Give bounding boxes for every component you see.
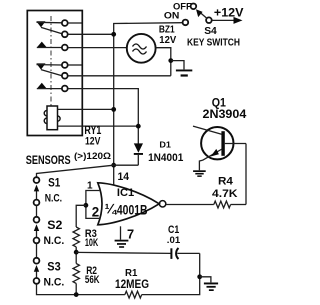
wire C1 right: [177, 252, 199, 254]
ground G3 emitter: [193, 170, 206, 177]
switch S4 ON contact: [183, 20, 189, 26]
svg-text:D1: D1: [159, 139, 171, 149]
wire NO2 to contact circle: [37, 88, 62, 90]
sensor S1: [34, 177, 40, 205]
diode D1: [134, 126, 143, 165]
svg-text:1N4001: 1N4001: [148, 152, 183, 164]
relay contact K1a NC triangle: [36, 21, 45, 27]
svg-text:56K: 56K: [85, 274, 100, 286]
node rail-coil junction: [111, 107, 116, 112]
svg-text:.01: .01: [167, 235, 180, 245]
wire contact P1 stub: [68, 22, 82, 24]
wire contact P3 to buzzer: [68, 47, 127, 49]
svg-text:+12V: +12V: [214, 6, 244, 19]
wire NC2 to contact circle: [37, 64, 62, 66]
svg-text:2: 2: [92, 204, 99, 219]
relay box RY1 outline: [27, 11, 82, 136]
node R2 bottom junction: [74, 292, 79, 297]
svg-text:2N3904: 2N3904: [203, 108, 247, 121]
node rail-D1-sensors junction: [111, 163, 116, 168]
relay contact circle P5: [62, 73, 68, 79]
svg-text:12MEG: 12MEG: [115, 278, 149, 291]
wire coil top to rail: [58, 108, 114, 110]
lever wire K1b: [41, 70, 62, 76]
ground G5 pin7: [115, 240, 129, 248]
resistor R3: [73, 227, 79, 247]
pin 7 wire: [120, 226, 122, 239]
wire contact P2 to +12V rail: [68, 33, 114, 35]
svg-text:N.C.: N.C.: [44, 235, 65, 247]
wire buzzer right lead: [156, 48, 171, 76]
svg-text:4001B: 4001B: [117, 203, 148, 218]
sensor S3: [34, 258, 40, 284]
svg-text:¼: ¼: [105, 201, 118, 217]
wire S1 to S2: [36, 205, 38, 216]
switch S4 OFF contact: [191, 4, 197, 10]
svg-text:S4: S4: [204, 26, 217, 37]
svg-text:4.7K: 4.7K: [212, 188, 238, 200]
node buzzer ground junction: [168, 58, 173, 63]
+12V output arrow: [212, 17, 243, 24]
wire S2 to S3: [36, 243, 38, 257]
wire sensors top to rail node: [37, 165, 114, 177]
svg-text:BZ1: BZ1: [159, 24, 175, 35]
wire D1 cathode to rail node: [114, 164, 139, 166]
wire Q1 base to R4: [245, 144, 247, 205]
+12V rail wire: [114, 23, 183, 185]
svg-text:10K: 10K: [85, 237, 98, 249]
wire NO1 to contact circle: [37, 47, 62, 49]
wire Q1 emitter to ground: [199, 160, 202, 170]
NOR gate IC1 body: [98, 183, 166, 225]
resistor R2: [73, 264, 79, 284]
resistor R4: [214, 201, 231, 208]
resistor R1: [125, 291, 142, 298]
relay contact K1a NO triangle: [37, 42, 46, 47]
wire contact P4 stub: [68, 64, 82, 66]
node R3-R2-C1 junction: [74, 250, 79, 255]
ground G2 buzzer: [171, 61, 192, 77]
wire contact P6 to Q1 collector node: [68, 89, 139, 127]
pin 2 wire: [86, 205, 100, 218]
svg-text:12V: 12V: [159, 35, 176, 46]
switch S4 lever arrow: [196, 9, 207, 18]
svg-text:14: 14: [118, 171, 130, 183]
switch S4 pole contact: [206, 17, 212, 23]
relay contact K1b NO triangle: [37, 83, 46, 88]
sensor S2: [34, 217, 40, 244]
svg-text:SENSORS: SENSORS: [26, 154, 71, 167]
svg-text:S1: S1: [48, 176, 61, 189]
svg-text:12V: 12V: [85, 136, 100, 148]
relay contact circle P3: [62, 45, 68, 51]
svg-text:ON: ON: [164, 11, 180, 21]
svg-text:7: 7: [127, 227, 134, 242]
wire input node to R3: [76, 205, 86, 227]
wire R4 to Q1 base: [231, 204, 246, 206]
relay contact K1b NC triangle: [36, 63, 45, 69]
node C1-R1 ground junction: [197, 274, 202, 279]
node C collector-coil-D1 junction: [136, 124, 141, 129]
svg-text:1: 1: [87, 180, 93, 191]
node input junction: [84, 203, 89, 208]
relay contact circle P4: [62, 62, 68, 68]
wire gate output: [166, 204, 214, 206]
relay coil RY1 body: [44, 106, 60, 130]
wire contact P5 to buzzer return: [68, 75, 171, 77]
svg-text:(>)120Ω: (>)120Ω: [74, 151, 111, 162]
wire C1 left: [76, 252, 170, 253]
relay contact circle P2: [62, 31, 68, 37]
svg-text:S2: S2: [47, 219, 62, 232]
svg-text:KEY SWITCH: KEY SWITCH: [187, 37, 240, 48]
node rail-P2 junction: [111, 32, 116, 37]
wire NC1 to contact circle: [37, 21, 62, 24]
svg-text:IC1: IC1: [117, 187, 134, 199]
svg-text:S3: S3: [47, 261, 61, 274]
wire R3 to node: [75, 247, 77, 264]
relay contact circle P6: [62, 86, 68, 92]
svg-text:N.C.: N.C.: [45, 193, 62, 205]
wire coil bottom to node C: [58, 125, 139, 127]
buzzer BZ1: [127, 34, 156, 63]
transistor Q1: [193, 126, 246, 160]
wire sensors bottom: [37, 284, 125, 295]
pin 1 wire: [86, 191, 100, 206]
relay contact circle P1: [62, 20, 68, 26]
lever wire K1a: [41, 27, 62, 33]
wire R2 to bottom: [75, 283, 77, 294]
capacitor C1: [170, 248, 178, 259]
svg-text:N.C.: N.C.: [44, 277, 65, 289]
ground G4: [200, 277, 218, 291]
armature dash-dot linkage line: [50, 16, 52, 106]
svg-text:R4: R4: [218, 176, 234, 188]
wire R1 right to C1 node: [142, 253, 200, 294]
